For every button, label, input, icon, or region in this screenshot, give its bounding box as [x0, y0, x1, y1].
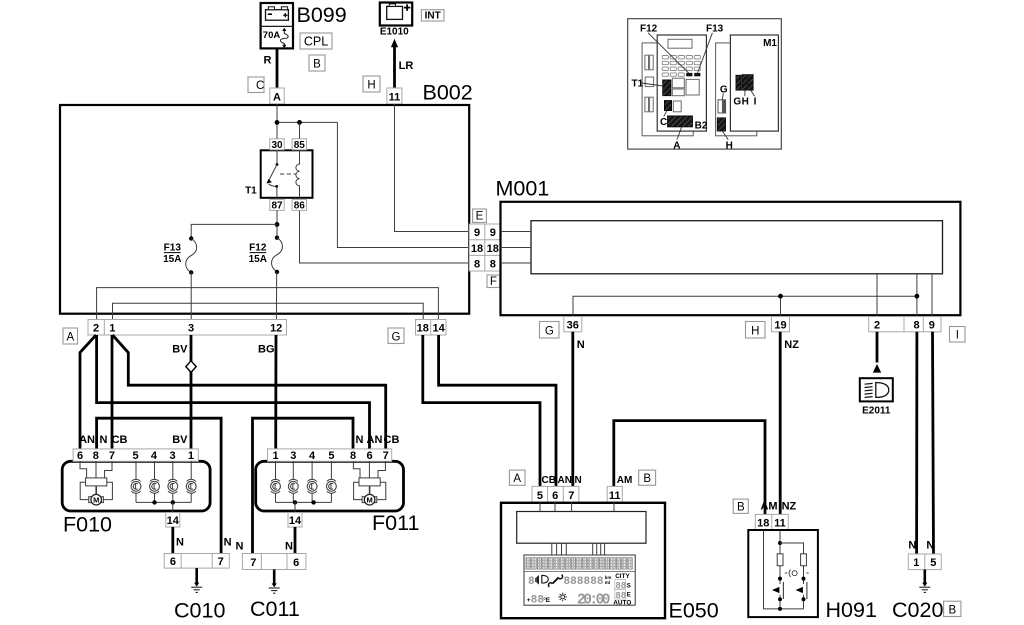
LCD sun icon — [558, 593, 567, 602]
pin 11 of B002 — [387, 88, 402, 104]
svg-text:B099: B099 — [297, 3, 347, 27]
junction dot — [311, 500, 315, 504]
svg-text:AM: AM — [760, 501, 777, 513]
svg-text:F011: F011 — [372, 511, 419, 535]
relay coil — [296, 150, 300, 198]
svg-text:F: F — [490, 276, 497, 288]
splice diamond on BV — [186, 361, 196, 373]
svg-text:36: 36 — [567, 320, 579, 332]
svg-text:C: C — [256, 80, 264, 92]
svg-text:15A: 15A — [163, 254, 181, 265]
svg-text:H: H — [751, 325, 759, 337]
inset small fuse grid — [662, 56, 700, 77]
svg-text:N: N — [176, 537, 184, 549]
svg-text:4: 4 — [309, 450, 316, 462]
junction dot — [915, 294, 920, 299]
inset connector H on bracket — [717, 118, 725, 131]
svg-text:F13: F13 — [706, 23, 724, 34]
wire pin 87 down — [276, 210, 278, 237]
LCD km ml — [605, 575, 612, 585]
svg-text:LR: LR — [399, 60, 414, 72]
svg-text:8: 8 — [490, 258, 496, 270]
F010 pin 14 — [166, 513, 180, 528]
inset right bracket panel — [716, 43, 757, 136]
label box F — [487, 275, 500, 288]
E050 inner module — [517, 512, 646, 544]
svg-text:E1010: E1010 — [380, 27, 409, 38]
svg-text:4: 4 — [151, 450, 158, 462]
label box H under M001 — [746, 322, 766, 339]
wire pin A internal — [276, 104, 278, 139]
svg-text:AN: AN — [558, 475, 572, 486]
svg-text:B: B — [948, 604, 956, 616]
svg-text:8: 8 — [350, 450, 356, 462]
svg-text:AN: AN — [367, 434, 383, 446]
svg-text:E050: E050 — [669, 599, 719, 623]
svg-text:9: 9 — [474, 227, 480, 239]
svg-text:11: 11 — [389, 91, 401, 103]
svg-text:E2011: E2011 — [862, 405, 891, 416]
wire F12 to pin 12 — [275, 272, 277, 320]
svg-text:I: I — [956, 330, 959, 342]
svg-text:5: 5 — [930, 557, 936, 569]
svg-text:E: E — [627, 593, 631, 599]
svg-text:B002: B002 — [423, 81, 473, 105]
instrument cluster E050 box — [501, 503, 665, 618]
svg-text:BV: BV — [172, 344, 188, 356]
wire internal bus to pin 36 — [573, 296, 917, 316]
junction dot — [297, 120, 302, 125]
wire N M001 pin8 to C020 pin1 — [915, 332, 918, 554]
H091 pin box 18 11 — [755, 514, 788, 530]
svg-text:888888: 888888 — [564, 576, 604, 588]
svg-text:7: 7 — [383, 450, 389, 462]
svg-text:H: H — [367, 80, 375, 92]
svg-text:9: 9 — [929, 320, 935, 332]
label box G under B002 — [388, 328, 404, 344]
inset socket — [673, 101, 681, 112]
svg-text:3: 3 — [188, 322, 194, 334]
svg-text:6: 6 — [170, 556, 176, 568]
label box B at C020 — [944, 601, 961, 616]
wire BV B002 pin3 to F010 pin1 — [190, 335, 193, 450]
bulb F010 pin3 — [168, 461, 178, 502]
svg-text:C020: C020 — [892, 598, 943, 622]
svg-text:B: B — [313, 58, 321, 70]
svg-text:CB: CB — [112, 434, 128, 446]
junction dot — [778, 607, 782, 611]
wire resistor right to contact — [803, 566, 805, 584]
relay pin 30 — [270, 139, 284, 151]
svg-text:87: 87 — [271, 201, 283, 212]
E050 module to LCD wires — [552, 543, 605, 555]
LCD mode digit frames — [615, 580, 626, 589]
F010 pin box 6 8 7 5 4 3 1 — [73, 449, 198, 462]
svg-text:6: 6 — [293, 557, 299, 569]
svg-text:N: N — [356, 434, 364, 446]
svg-text:ml: ml — [605, 580, 610, 585]
svg-text:6: 6 — [552, 490, 558, 502]
svg-text:11: 11 — [609, 490, 621, 502]
bulb F011 pin3 — [288, 461, 298, 502]
svg-text:1: 1 — [272, 450, 278, 462]
svg-text:2: 2 — [874, 320, 880, 332]
svg-text:A: A — [273, 91, 281, 103]
svg-text:88: 88 — [615, 581, 626, 591]
svg-text:N: N — [285, 541, 293, 553]
F011 pin 14 — [288, 513, 302, 528]
wire bus to pin 19 — [780, 296, 782, 316]
svg-text:I: I — [754, 97, 757, 108]
svg-text:19: 19 — [774, 320, 786, 332]
svg-text:3: 3 — [169, 450, 175, 462]
wire module to pin 9 — [931, 274, 933, 317]
svg-text:G: G — [733, 97, 741, 108]
svg-text:N: N — [100, 434, 108, 446]
svg-text:8: 8 — [474, 258, 480, 270]
E050 LCD panel — [524, 555, 635, 605]
label box G under M001 — [540, 322, 560, 339]
bulb F010 pin1 — [186, 461, 196, 502]
inset connectors G H I highlighted — [736, 75, 741, 90]
label box B at E050 — [639, 470, 656, 485]
svg-text:12: 12 — [270, 322, 282, 334]
svg-text:1: 1 — [188, 450, 194, 462]
contact bottom dots — [778, 597, 782, 601]
wire NZ M001 pin19 to H091 pin11 — [779, 332, 782, 515]
inset connector A/B2 highlighted — [668, 116, 693, 127]
svg-text:15A: 15A — [249, 254, 267, 265]
junction dot 87 branch — [275, 222, 280, 227]
svg-text:H091: H091 — [826, 598, 877, 622]
inset M1 box — [730, 35, 778, 131]
svg-text:H: H — [742, 97, 749, 108]
svg-text:M1: M1 — [763, 38, 777, 49]
E050 pin box 5 6 7 — [532, 486, 579, 502]
bulb F011 pin5 — [327, 461, 337, 502]
inset relay T1 highlighted — [663, 80, 671, 96]
junction dot — [293, 500, 297, 504]
svg-text:G: G — [720, 84, 728, 95]
svg-text:E: E — [476, 211, 484, 223]
svg-text:S: S — [627, 584, 631, 590]
wire CB B002 pin18 to E050 pin5 — [423, 335, 540, 486]
svg-text:G: G — [392, 331, 401, 343]
wire AM E050 pin11 to H091 pin18 — [614, 421, 765, 515]
wire to pin 85 — [299, 122, 301, 138]
inset location diagram frame — [628, 19, 782, 149]
E050 internal pin stubs — [540, 502, 614, 511]
svg-text:8: 8 — [93, 450, 99, 462]
switch H091 box — [748, 530, 818, 617]
M001 pin 36 — [564, 317, 582, 332]
fuse F12 value label — [249, 243, 267, 265]
inset fuse holders on bracket — [645, 55, 654, 112]
wire M001 pin2 stub — [876, 332, 879, 363]
svg-text:°E: °E — [543, 596, 551, 604]
svg-text:AN: AN — [79, 434, 95, 446]
svg-text:F13: F13 — [164, 243, 182, 254]
wire AN branch to F011 pin6 — [97, 335, 370, 450]
label box CPL — [300, 33, 332, 49]
resistor left — [777, 554, 783, 566]
wire A branch to connector row 18 — [337, 122, 469, 247]
M001 pin box 2 8 9 — [869, 317, 941, 332]
svg-text:18: 18 — [757, 518, 769, 530]
wire pin 11 internal to row 9 — [395, 104, 470, 232]
battery B099 — [261, 3, 293, 48]
wire row 8 into module — [501, 262, 532, 264]
label box I under M001 — [950, 327, 966, 343]
contact dot — [778, 577, 782, 581]
label box E — [473, 209, 487, 223]
wire N F010 pin14 to C010 pin6 — [171, 527, 174, 554]
junction dot — [171, 500, 175, 504]
wire N F010 pin8 to C010 pin7 — [97, 418, 222, 553]
switch contact right — [796, 582, 807, 609]
svg-text:14: 14 — [167, 515, 180, 527]
svg-text:5: 5 — [537, 490, 543, 502]
headlamp unit F010 body — [62, 461, 210, 511]
branch to right resistor — [780, 543, 804, 554]
connector E/F pin rows 9 18 8 — [469, 224, 500, 271]
inset fuse F13 highlighted — [694, 73, 700, 76]
svg-text:30: 30 — [271, 140, 283, 151]
beam adjuster E2011 — [860, 378, 893, 416]
svg-text:70A: 70A — [263, 30, 281, 41]
svg-text:85: 85 — [294, 140, 306, 151]
svg-text:7: 7 — [109, 450, 115, 462]
wire module to pin 8 — [916, 274, 918, 317]
wire CB B002 pin1 to F010 pin7 — [111, 335, 114, 450]
svg-text:8: 8 — [528, 576, 535, 588]
F011 bulb common bus — [276, 501, 332, 503]
svg-text:5: 5 — [132, 450, 138, 462]
svg-text:14: 14 — [289, 515, 302, 527]
svg-text:A: A — [513, 473, 521, 485]
svg-text:1: 1 — [913, 557, 919, 569]
label box B — [309, 55, 325, 71]
inset fusebox body — [657, 35, 706, 131]
wire bus to pin 14 — [294, 502, 296, 512]
inset left bracket panel — [642, 43, 693, 136]
label box INT — [421, 10, 444, 22]
bulb F011 pin1 — [271, 461, 281, 502]
B002 bottom pin box 2 1 3 12 — [88, 320, 287, 336]
svg-text:7: 7 — [250, 557, 256, 569]
svg-text:A: A — [673, 141, 680, 152]
svg-text:CITY: CITY — [615, 573, 630, 580]
wire module to pin 2 — [876, 274, 878, 317]
M001 inner module — [531, 221, 943, 274]
label box A bottom left — [63, 328, 78, 344]
junction dot — [152, 500, 156, 504]
arrow to E2011 — [873, 364, 881, 373]
svg-text:N: N — [577, 339, 585, 351]
H091 pin11 internal wire — [779, 530, 781, 554]
E050 pin box 11 — [607, 486, 622, 502]
relay pin 86 — [292, 199, 306, 211]
wire AN B002 pin2 to F010 pin6 — [80, 335, 96, 450]
fuse 70A inside B099 — [263, 28, 288, 49]
svg-text:C010: C010 — [174, 599, 225, 623]
horn button icon — [785, 570, 809, 577]
motor M of F010 — [80, 461, 112, 505]
ground at C011 — [269, 570, 280, 594]
resistor right — [801, 554, 807, 566]
bulb F010 pin4 — [150, 461, 160, 502]
LCD buzzer icon — [536, 576, 539, 584]
svg-text:BV: BV — [172, 434, 188, 446]
svg-text:N: N — [908, 540, 916, 552]
internal link pin1 to pin18 — [113, 303, 424, 319]
relay dashed actuate line — [280, 173, 297, 175]
label box C — [248, 77, 264, 93]
svg-text:M001: M001 — [496, 177, 550, 201]
svg-text:8: 8 — [913, 320, 919, 332]
wire LR pin 11 to E1010 — [393, 47, 396, 89]
svg-text:F010: F010 — [63, 513, 112, 537]
svg-text:9: 9 — [490, 227, 496, 239]
relay pin 85 — [292, 139, 306, 151]
svg-text:NZ: NZ — [782, 501, 797, 513]
motor M of F011 — [353, 461, 385, 505]
ground at C020 — [919, 570, 930, 593]
node M001 box — [501, 202, 961, 315]
svg-text:86: 86 — [294, 201, 306, 212]
svg-text:F12: F12 — [249, 243, 267, 254]
relay T1 box — [261, 150, 313, 198]
power node E1010 — [380, 3, 412, 38]
wire N M001 pin36 to E050 pin7 — [571, 332, 574, 487]
bulb F011 pin4 — [307, 461, 317, 502]
svg-text:N: N — [224, 537, 232, 549]
LCD segment matrix row — [524, 558, 635, 572]
contact dot — [802, 577, 806, 581]
svg-text:18: 18 — [487, 243, 499, 255]
wire branch to fuse F13 — [191, 224, 277, 238]
svg-text:F12: F12 — [640, 23, 658, 34]
fuse F13 — [186, 236, 197, 274]
headlamp unit F011 body — [256, 461, 404, 511]
svg-text:7: 7 — [568, 490, 574, 502]
inset connector C highlighted — [664, 101, 671, 111]
svg-text:1: 1 — [109, 322, 115, 334]
junction dot — [778, 541, 782, 545]
svg-text:5: 5 — [328, 450, 334, 462]
B002 bottom pin box 18 14 — [416, 320, 447, 336]
svg-text:20:00: 20:00 — [577, 593, 611, 609]
label box H — [363, 76, 380, 92]
junction dot — [778, 294, 783, 299]
wire N M001 pin9 to C020 pin5 — [933, 332, 934, 554]
svg-text:R: R — [264, 55, 272, 67]
fuse F13 value label — [163, 243, 181, 265]
svg-text:BG: BG — [258, 344, 275, 356]
svg-text:B: B — [643, 473, 651, 485]
fuse F12 — [272, 236, 283, 275]
label box A at E050 — [509, 470, 525, 485]
inset fusebox top slot — [668, 39, 692, 48]
svg-text:18: 18 — [417, 322, 429, 334]
svg-text:CB: CB — [384, 434, 400, 446]
svg-text:6: 6 — [366, 450, 372, 462]
connector C020 pin box 1 5 — [908, 554, 941, 570]
node B002 box — [60, 105, 469, 314]
F010 bulb common bus — [136, 501, 191, 503]
svg-text:B2: B2 — [695, 121, 708, 132]
wire CB branch to F011 pin7 — [113, 335, 386, 450]
LCD wrench icon — [548, 575, 562, 587]
svg-text:T1: T1 — [632, 79, 644, 90]
svg-text:G: G — [545, 325, 554, 337]
svg-text:NZ: NZ — [784, 339, 799, 351]
svg-text:3: 3 — [290, 450, 296, 462]
svg-text:INT: INT — [425, 11, 441, 22]
M001 pin 19 — [772, 317, 790, 332]
svg-text:14: 14 — [432, 322, 445, 334]
wire F13 to pin 3 — [190, 273, 192, 320]
H091 pin18 internal wire — [764, 530, 781, 609]
inset fuse F12 highlighted — [686, 73, 692, 76]
wire AN B002 pin14 to E050 pin6 — [439, 335, 556, 486]
bottom link — [780, 608, 804, 610]
internal link pin2 to pin14 — [97, 288, 439, 320]
label box B at H091 — [733, 499, 748, 513]
bulb F010 pin5 — [131, 461, 141, 502]
svg-text:C011: C011 — [250, 597, 300, 621]
wire bus to pin 14 — [172, 502, 174, 512]
svg-text:CPL: CPL — [304, 35, 328, 49]
svg-text:N: N — [236, 541, 244, 553]
svg-text:AM: AM — [617, 475, 633, 486]
svg-text:18: 18 — [471, 243, 483, 255]
svg-text:N: N — [575, 475, 582, 486]
connector C010 pin box 6 7 — [164, 554, 229, 569]
wire N F011 pin14 to C011 pin6 — [294, 527, 297, 554]
svg-text:N: N — [926, 540, 934, 552]
wire internal bus to pin 85 — [277, 121, 337, 123]
svg-text:H: H — [726, 141, 733, 152]
svg-text:6: 6 — [77, 450, 83, 462]
svg-text:B: B — [737, 501, 745, 513]
svg-text:7: 7 — [218, 556, 224, 568]
svg-text:11: 11 — [774, 518, 786, 530]
inset relay sockets — [672, 78, 699, 96]
svg-text:A: A — [66, 332, 74, 344]
connector C011 pin box 7 6 — [242, 554, 306, 570]
wire BG B002 pin12 to F011 pin1 — [274, 335, 277, 450]
ground at C010 — [191, 568, 202, 592]
wire R battery to B002 pin A — [276, 48, 279, 88]
wire row 18 into module — [501, 247, 532, 249]
arrow to E1010 — [391, 39, 398, 47]
wire pin 86 to row 8 — [300, 211, 470, 263]
relay contact arm — [267, 150, 279, 198]
wire N F011 pin8 to C011 pin7 — [253, 418, 354, 553]
pin A of B002 — [270, 88, 284, 104]
svg-text:T1: T1 — [245, 186, 257, 197]
wire row 9 into module — [501, 231, 532, 233]
switch contact left — [772, 582, 783, 609]
F011 pin box 1 3 4 5 8 6 7 — [268, 449, 392, 462]
svg-text:AUTO: AUTO — [613, 599, 631, 606]
svg-text:2: 2 — [93, 322, 99, 334]
junction dot — [275, 120, 280, 125]
LCD headlamp icon — [542, 575, 549, 583]
relay pin 87 — [270, 199, 284, 211]
wire resistor left to contact — [779, 566, 781, 584]
